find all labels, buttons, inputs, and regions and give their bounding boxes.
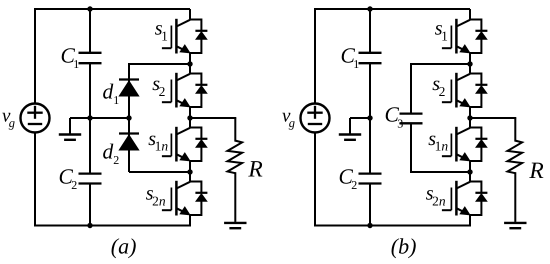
svg-text:2n: 2n	[152, 193, 166, 208]
svg-text:2: 2	[351, 178, 357, 192]
svg-text:3: 3	[397, 116, 403, 130]
svg-text:g: g	[289, 116, 295, 130]
svg-text:2: 2	[439, 84, 446, 99]
svg-text:1: 1	[441, 28, 448, 43]
svg-text:1: 1	[161, 28, 168, 43]
svg-text:1n: 1n	[155, 139, 169, 154]
svg-text:R: R	[528, 158, 543, 184]
svg-text:2: 2	[71, 178, 77, 192]
svg-text:1n: 1n	[435, 139, 449, 154]
svg-text:d: d	[103, 139, 114, 163]
svg-text:1: 1	[73, 57, 79, 71]
svg-text:1: 1	[113, 93, 119, 107]
svg-text:2: 2	[159, 84, 166, 99]
svg-text:(b): (b)	[391, 234, 417, 259]
svg-text:d: d	[103, 79, 114, 103]
svg-text:g: g	[9, 116, 15, 130]
svg-text:R: R	[247, 157, 262, 183]
svg-text:1: 1	[353, 57, 359, 71]
svg-text:(a): (a)	[111, 234, 137, 259]
svg-text:2n: 2n	[432, 193, 446, 208]
svg-text:2: 2	[113, 153, 119, 167]
